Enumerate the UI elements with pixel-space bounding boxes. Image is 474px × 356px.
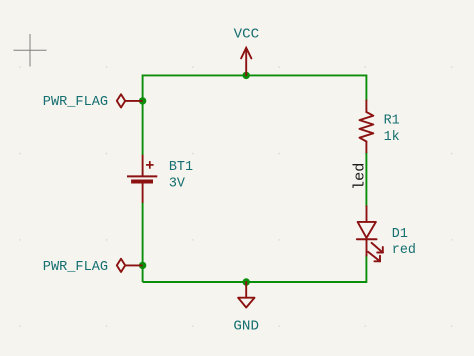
wire bottom: GND rail: [143, 281, 367, 283]
resistor R1: [360, 100, 374, 152]
svg-text:D1: D1: [392, 227, 408, 242]
battery BT1: [127, 155, 157, 203]
emission arrow 1: [372, 243, 383, 253]
emission arrow 2: [368, 252, 380, 261]
svg-text:R1: R1: [384, 113, 400, 128]
pin 1 (top): [142, 155, 144, 177]
svg-text:PWR_FLAG: PWR_FLAG: [43, 260, 108, 275]
PWR_FLAG top symbol: [117, 94, 143, 107]
wire right upper: corner to R1: [365, 75, 367, 101]
plus sign: [146, 164, 154, 166]
svg-text:PWR_FLAG: PWR_FLAG: [43, 95, 108, 110]
junction at GND: [243, 278, 250, 285]
power symbol VCC: [241, 48, 251, 76]
svg-text:GND: GND: [233, 319, 259, 335]
svg-text:red: red: [392, 243, 416, 258]
cathode bar: [357, 238, 377, 240]
PWR_FLAG bottom symbol: [117, 259, 143, 272]
pin cathode: [366, 239, 368, 255]
LED D1: [357, 206, 383, 261]
power symbol GND: [238, 282, 254, 308]
svg-text:led: led: [350, 163, 368, 190]
svg-text:1k: 1k: [384, 130, 400, 145]
pin 2 (bottom): [142, 183, 144, 202]
sheet origin crosshair: [14, 34, 47, 67]
svg-text:VCC: VCC: [234, 27, 260, 43]
junction at PWR_FLAG bottom: [139, 262, 146, 269]
wire right middle: R1 to D1 (net led): [365, 152, 367, 206]
pin anode: [366, 206, 368, 222]
junction at VCC: [243, 72, 250, 79]
plate short thick (-): [131, 180, 153, 184]
junction at PWR_FLAG top: [139, 97, 146, 104]
plate long thin (+): [127, 175, 157, 177]
svg-text:3V: 3V: [169, 177, 185, 192]
wire left upper: corner to battery + pin: [142, 75, 144, 156]
svg-text:BT1: BT1: [169, 160, 193, 175]
triangle: [358, 222, 376, 238]
wire top: VCC rail: [143, 74, 367, 76]
wire left lower: battery - pin to bottom corner: [142, 203, 144, 283]
wire right lower: D1 to bottom corner: [365, 255, 367, 283]
